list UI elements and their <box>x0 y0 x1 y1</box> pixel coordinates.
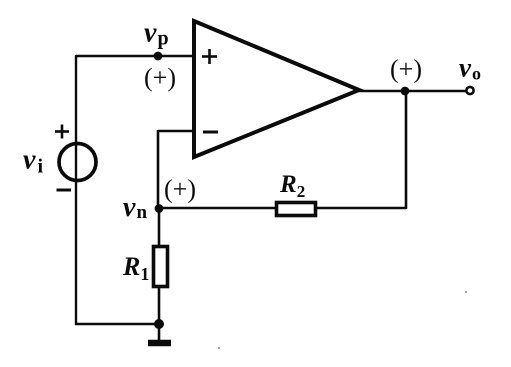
svg-text:vo: vo <box>459 53 481 84</box>
wire top: source to + input <box>76 55 194 58</box>
wire R2 right to feedback corner <box>316 207 406 210</box>
svg-text:R1: R1 <box>122 252 149 284</box>
resistor R1 body <box>154 247 168 287</box>
op-amp U1 triangle <box>194 21 359 157</box>
resistor R2 body <box>277 203 316 216</box>
source plus polarity <box>55 125 69 139</box>
ground <box>148 340 171 347</box>
svg-text:(+): (+) <box>390 55 422 84</box>
wire feedback vertical <box>405 90 408 209</box>
wire left vertical through source <box>75 55 77 325</box>
node ground junction dot <box>154 319 164 329</box>
svg-text:vi: vi <box>23 145 43 178</box>
wire bottom: source to ground node <box>75 323 160 326</box>
scan speck right <box>465 291 467 293</box>
op-amp plus input mark <box>202 49 217 64</box>
terminal vo open circle <box>466 87 473 94</box>
svg-text:(+): (+) <box>144 63 176 92</box>
svg-text:R2: R2 <box>279 171 305 201</box>
wire minus input vertical to node vn <box>157 130 160 209</box>
voltage source Vi circle <box>59 144 96 181</box>
svg-text:vp: vp <box>144 18 169 50</box>
wire vn to R2 left <box>158 207 276 210</box>
scan speck <box>218 347 220 349</box>
wire R1 bottom to ground <box>158 287 161 341</box>
node output dot <box>401 87 410 96</box>
node vp dot <box>154 52 163 61</box>
svg-text:(+): (+) <box>164 175 196 204</box>
source minus polarity <box>57 189 72 192</box>
wire vn to R1 top <box>158 208 161 246</box>
svg-text:vn: vn <box>123 192 147 223</box>
node vn dot <box>155 204 164 213</box>
wire output <box>358 90 467 93</box>
op-amp minus input mark <box>203 131 218 134</box>
wire minus input horizontal <box>158 130 194 133</box>
